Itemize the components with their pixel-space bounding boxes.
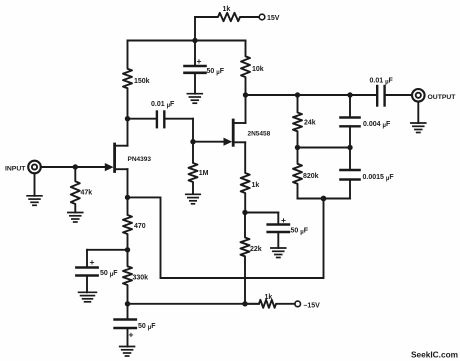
ground (below 47k) — [68, 213, 83, 223]
terminal -15V — [295, 301, 301, 307]
svg-text:1M: 1M — [199, 170, 209, 177]
resistor R 150k — [123, 41, 132, 119]
capacitor C 0.004uF — [349, 95, 351, 118]
svg-text:50 µF: 50 µF — [207, 68, 225, 76]
svg-text:820k: 820k — [303, 173, 319, 180]
node junction 0.004 top — [347, 92, 352, 97]
wire to left 50uF — [87, 249, 128, 251]
svg-text:SeekIC.com: SeekIC.com — [411, 350, 458, 360]
svg-text:15V: 15V — [267, 15, 280, 22]
svg-text:PN4393: PN4393 — [128, 156, 152, 163]
node K junction (22k bottom) — [242, 301, 247, 306]
svg-text:+: + — [197, 56, 202, 66]
wire input — [41, 166, 106, 168]
svg-text:47k: 47k — [81, 190, 93, 197]
connector OUTPUT — [412, 89, 425, 102]
svg-text:330k: 330k — [133, 274, 149, 281]
wire output ground stub — [417, 102, 419, 123]
svg-text:+: + — [129, 330, 134, 340]
capacitor C 0.0015uF — [349, 148, 351, 171]
capacitor C 0.01uF (interstage) — [128, 118, 157, 120]
terminal +15V — [259, 14, 265, 20]
node junction 0.0015 top — [347, 145, 352, 150]
svg-text:1k: 1k — [265, 294, 273, 301]
node F junction (gate/1M) — [190, 139, 195, 144]
resistor R 1k (top, to +15V) — [195, 13, 259, 21]
wire node H bar — [298, 198, 351, 200]
node junction 24k top — [295, 92, 300, 97]
node C junction (10k/drain) — [243, 92, 248, 97]
wire -15V rail — [128, 303, 260, 305]
node H junction (feedback) — [321, 196, 327, 202]
svg-text:50 µF: 50 µF — [100, 270, 118, 278]
capacitor C 50uF (top decoupling) — [194, 41, 196, 67]
svg-text:10k: 10k — [252, 66, 264, 73]
connector INPUT — [28, 161, 41, 174]
resistor R 47k — [71, 167, 80, 213]
resistor R 1k (2N5458 source) — [241, 142, 250, 212]
resistor R 1k (to -15V) — [245, 300, 295, 308]
wire output bus y=95 — [246, 94, 377, 96]
node A junction — [192, 38, 197, 43]
svg-text:OUTPUT: OUTPUT — [428, 94, 457, 101]
svg-text:470: 470 — [134, 223, 146, 230]
node E junction (PN4393 source) — [125, 195, 130, 200]
transistor Q 2N5458 — [232, 120, 235, 145]
resistor R 820k — [293, 148, 302, 199]
ground (below left 50uF) — [79, 292, 97, 302]
resistor R 470 — [123, 197, 132, 249]
wire row2 — [298, 147, 351, 149]
capacitor C 50uF (left bypass) — [86, 250, 88, 268]
resistor R 24k — [293, 95, 302, 148]
ground (below bottom 50uF) — [120, 347, 135, 357]
node D junction (1k/22k) — [242, 210, 247, 215]
wire bus y=40.5 — [128, 40, 246, 42]
node junction 820k top — [295, 145, 300, 150]
svg-text:INPUT: INPUT — [5, 165, 26, 172]
svg-text:1k: 1k — [223, 6, 231, 13]
ground (below 1M) — [186, 194, 200, 204]
wire to mid 50uF — [245, 212, 278, 214]
svg-text:+: + — [281, 215, 286, 225]
svg-text:–15V: –15V — [304, 302, 321, 309]
svg-text:0.004 µF: 0.004 µF — [363, 121, 391, 129]
svg-text:0.0015 µF: 0.0015 µF — [363, 174, 395, 182]
ground (below mid 50uF) — [271, 248, 286, 258]
resistor R 22k — [241, 213, 250, 304]
node J junction (330k bottom) — [125, 301, 130, 306]
wire input connector ground stub — [34, 173, 36, 196]
svg-text:0.01 µF: 0.01 µF — [151, 101, 175, 109]
resistor R 10k — [241, 41, 250, 96]
svg-text:50 µF: 50 µF — [291, 228, 309, 236]
wire feedback path — [128, 197, 324, 278]
ground (below OUTPUT) — [411, 123, 426, 133]
ground (below INPUT) — [27, 196, 42, 206]
node B junction (150k/cap) — [125, 116, 130, 121]
capacitor C 50uF (source bypass) — [268, 223, 289, 226]
svg-text:150k: 150k — [134, 78, 150, 85]
svg-text:+: + — [90, 257, 95, 267]
transistor Q PN4393 — [113, 144, 116, 172]
svg-text:24k: 24k — [304, 119, 316, 126]
svg-text:50 µF: 50 µF — [138, 323, 156, 331]
node G junction (input/47k) — [73, 164, 78, 169]
capacitor C 50uF (bottom, -15V bypass) — [127, 304, 129, 320]
resistor R 1M — [189, 142, 198, 194]
resistor R 330k — [123, 250, 132, 304]
svg-text:22k: 22k — [250, 246, 262, 253]
svg-text:0.01 µF: 0.01 µF — [370, 78, 394, 86]
svg-text:1k: 1k — [252, 182, 260, 189]
svg-text:2N5458: 2N5458 — [248, 130, 271, 137]
wire top rail left stub — [194, 17, 196, 41]
capacitor C 0.01uF (output coupling) — [376, 86, 378, 106]
ground (below top 50uF) — [187, 94, 202, 104]
node I junction (470/330k) — [125, 247, 130, 252]
